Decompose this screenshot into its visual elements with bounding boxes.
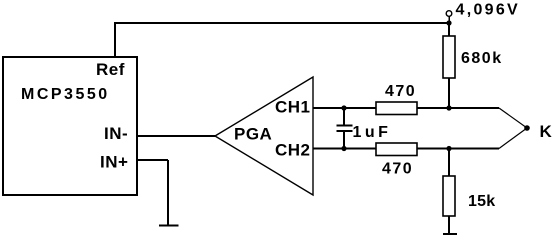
junction dot at supply node [446, 20, 451, 25]
label MCP3550 [21, 86, 110, 103]
svg-text:CH1: CH1 [275, 97, 311, 116]
label 680k [461, 50, 503, 67]
svg-text:1uF: 1uF [353, 124, 392, 141]
wire IN+ down to ground [167, 160, 169, 226]
label 15k [468, 193, 495, 210]
label PGA [234, 125, 272, 144]
wire node CH2 down to resistor 15k [448, 149, 450, 177]
wire diagonal top to node K [499, 108, 527, 128]
wire IN- pin to PGA input [137, 135, 215, 137]
svg-text:K: K [540, 122, 553, 141]
svg-text:MCP3550: MCP3550 [21, 86, 110, 103]
svg-text:470: 470 [382, 161, 413, 178]
pin label CH1 [275, 97, 311, 116]
node K junction dot [524, 125, 530, 131]
resistor 470 bottom body [376, 143, 417, 156]
capacitor C 1uF bottom lead [343, 132, 345, 149]
wire CH1 output to capacitor node [313, 107, 376, 109]
ground bar under 15k [443, 233, 457, 235]
capacitor C 1uF top plate [337, 125, 353, 127]
wire IN+ pin horizontal [137, 159, 168, 161]
label 470 top [385, 83, 416, 100]
resistor 470 top body [376, 102, 417, 115]
pin label CH2 [275, 140, 311, 159]
resistor 680k body [443, 36, 455, 78]
supply terminal circle 4,096V [446, 11, 452, 17]
wire resistor 680k to node CH1 [448, 78, 450, 108]
junction dot CH1 at capacitor [341, 105, 346, 110]
op-amp PGA triangle [215, 77, 313, 195]
resistor 15k body [443, 176, 455, 216]
svg-text:470: 470 [385, 83, 416, 100]
pin label Ref [96, 60, 125, 79]
junction dot bottom right node [446, 146, 451, 151]
capacitor C 1uF top lead [343, 108, 345, 125]
junction dot top right node [446, 105, 451, 110]
svg-text:4,096V: 4,096V [456, 2, 521, 19]
pin label IN- [104, 124, 128, 143]
svg-text:IN+: IN+ [100, 153, 128, 172]
wire 470 top to node [417, 107, 499, 109]
junction dot CH2 at capacitor [341, 146, 346, 151]
svg-text:IN-: IN- [104, 124, 128, 143]
svg-text:CH2: CH2 [275, 140, 311, 159]
label 4,096V [456, 2, 521, 19]
IC U1 MCP3550 body [3, 57, 137, 195]
capacitor C 1uF bottom plate [337, 130, 353, 132]
wire supply node to resistor 680k [448, 23, 450, 36]
label 1uF [353, 124, 392, 141]
svg-text:680k: 680k [461, 50, 503, 67]
wire CH2 output to capacitor node [313, 148, 376, 150]
svg-text:PGA: PGA [234, 125, 272, 144]
wire Ref pin vertical [114, 23, 116, 56]
svg-text:15k: 15k [468, 193, 495, 210]
ground bar under IN+ [159, 225, 179, 227]
label 470 bottom [382, 161, 413, 178]
wire 470 bottom to node [417, 148, 499, 150]
wire stub to supply terminal [448, 16, 450, 23]
wire diagonal bottom to node K [499, 128, 527, 149]
label node K [540, 122, 553, 141]
wire top horizontal to supply [114, 22, 449, 24]
wire resistor 15k to ground [448, 216, 450, 234]
svg-text:Ref: Ref [96, 60, 125, 79]
pin label IN+ [100, 153, 128, 172]
